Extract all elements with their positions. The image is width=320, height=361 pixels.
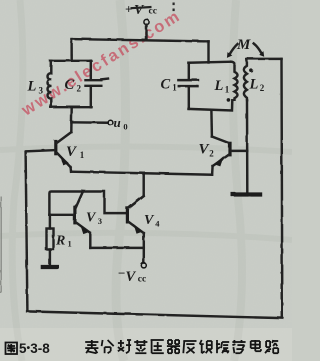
+Vcc supply label (125, 2, 175, 19)
transistor V2 (mirrored) (211, 136, 229, 174)
svg-text:C: C (161, 77, 171, 93)
wire: R1 to ground (48, 249, 50, 264)
svg-text:3: 3 (98, 216, 102, 226)
+Vcc terminal (143, 19, 148, 24)
svg-text:1: 1 (172, 83, 177, 93)
svg-text:1: 1 (80, 150, 85, 160)
svg-text:M: M (236, 37, 251, 53)
M left arrow (229, 44, 237, 54)
right tank loop bottom edge (188, 100, 232, 110)
wire: rail right drop to right tank (207, 41, 209, 62)
wire: tail tap to V4 collector (129, 174, 144, 207)
wire: left feedback drop (V1 base to bottom rail) (25, 151, 27, 310)
wire: right tank bottom feed to V2 collector (210, 110, 213, 136)
svg-text:L: L (27, 79, 37, 95)
label V1 (66, 144, 85, 160)
phase dot L2 (249, 68, 253, 72)
wire: rail left drop to left tank (70, 39, 73, 61)
svg-text:2: 2 (260, 83, 265, 93)
wire: output tap (71, 121, 107, 124)
capacitor C1 (left edge) (178, 62, 198, 108)
right tank loop (C1 L1) top edge (188, 61, 231, 62)
label -Vcc (118, 266, 146, 286)
left tank loop bottom edge (50, 105, 91, 107)
transistor V4 (127, 196, 143, 263)
watermark www.elecfans.com (18, 8, 183, 120)
ground (right, under L2) (231, 192, 262, 196)
svg-text:u: u (114, 115, 121, 130)
label V4 (144, 213, 160, 229)
svg-text:2: 2 (77, 84, 82, 94)
wire: left tank bottom feed to V1 collector (70, 107, 73, 132)
svg-text:L: L (249, 77, 259, 93)
label R1 (55, 234, 72, 249)
svg-text:cc: cc (138, 275, 146, 285)
inductor L1 (231, 61, 237, 99)
inductor L3 (left edge coil) (47, 60, 51, 106)
label C1 (161, 77, 178, 93)
wire: R1 top junction from V3 base (48, 214, 50, 228)
transistor V3 (74, 191, 89, 247)
label C2 (65, 77, 82, 94)
-Vcc terminal (141, 262, 146, 267)
wire: bottom rail (27, 311, 282, 318)
label V2 (199, 142, 215, 159)
wire: V3 base lead (49, 213, 73, 215)
svg-text:3: 3 (39, 86, 44, 96)
svg-text:0: 0 (123, 122, 127, 132)
svg-text:4: 4 (155, 219, 160, 229)
wire: emitter tail line (71, 171, 212, 174)
wire: mirror emitter rail (90, 246, 144, 248)
label L1 (214, 78, 230, 95)
ground (under R1) (40, 264, 58, 268)
left tank loop top edge (50, 59, 91, 61)
label u0 (114, 115, 128, 132)
wire: V3 collector diode loop (49, 191, 82, 214)
wire: right edge riser (L2 loop right side) (280, 59, 283, 318)
caption 图 glyph (6, 343, 18, 355)
wire: top rail (71, 39, 208, 41)
caption CJK text 差分对变压器反馈振荡电路 (85, 340, 278, 353)
svg-text:1: 1 (68, 239, 72, 249)
inductor L2 (243, 58, 246, 99)
svg-text:5•3-8: 5•3-8 (19, 341, 50, 356)
label L2 (249, 77, 265, 94)
capacitor C2 (right edge) (85, 60, 108, 106)
svg-text:C: C (65, 77, 75, 93)
svg-text:2: 2 (209, 149, 214, 159)
wire: L2 bottom to ground (245, 100, 248, 192)
wire: V1 base lead (26, 150, 55, 151)
svg-text:L: L (214, 78, 224, 94)
svg-text:R: R (55, 234, 65, 249)
wire: V3 collector to V4 base step (82, 191, 125, 213)
transistor V1 (55, 132, 71, 172)
output terminal u0 (108, 120, 113, 125)
svg-text:V: V (126, 269, 137, 285)
left margin scan line (0, 196, 2, 293)
label V3 (86, 211, 102, 226)
wire: +Vcc terminal to top rail (145, 24, 147, 39)
svg-text:−: − (118, 266, 125, 281)
svg-text:1: 1 (225, 85, 230, 95)
M right arrow (253, 43, 261, 53)
L2 loop top edge (246, 57, 281, 59)
phase dot L1 (226, 98, 230, 102)
label L3 (27, 79, 44, 96)
wire: V2 base lead to L2 line (231, 149, 247, 151)
resistor R1 (46, 228, 53, 249)
